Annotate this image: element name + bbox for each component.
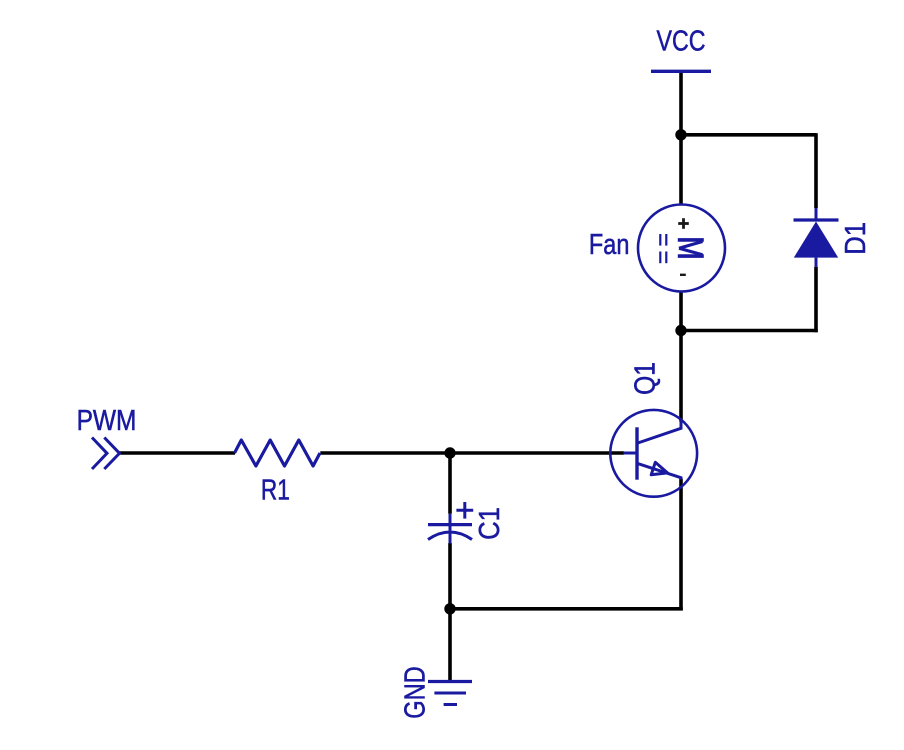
svg-text:R1: R1 [261,473,290,506]
svg-text:Fan: Fan [589,227,630,260]
svg-text:C1: C1 [473,507,506,540]
svg-text:GND: GND [398,666,431,719]
svg-text:PWM: PWM [77,404,137,436]
svg-text:Q1: Q1 [629,362,661,395]
svg-text:D1: D1 [839,222,872,255]
svg-text:VCC: VCC [657,24,706,57]
